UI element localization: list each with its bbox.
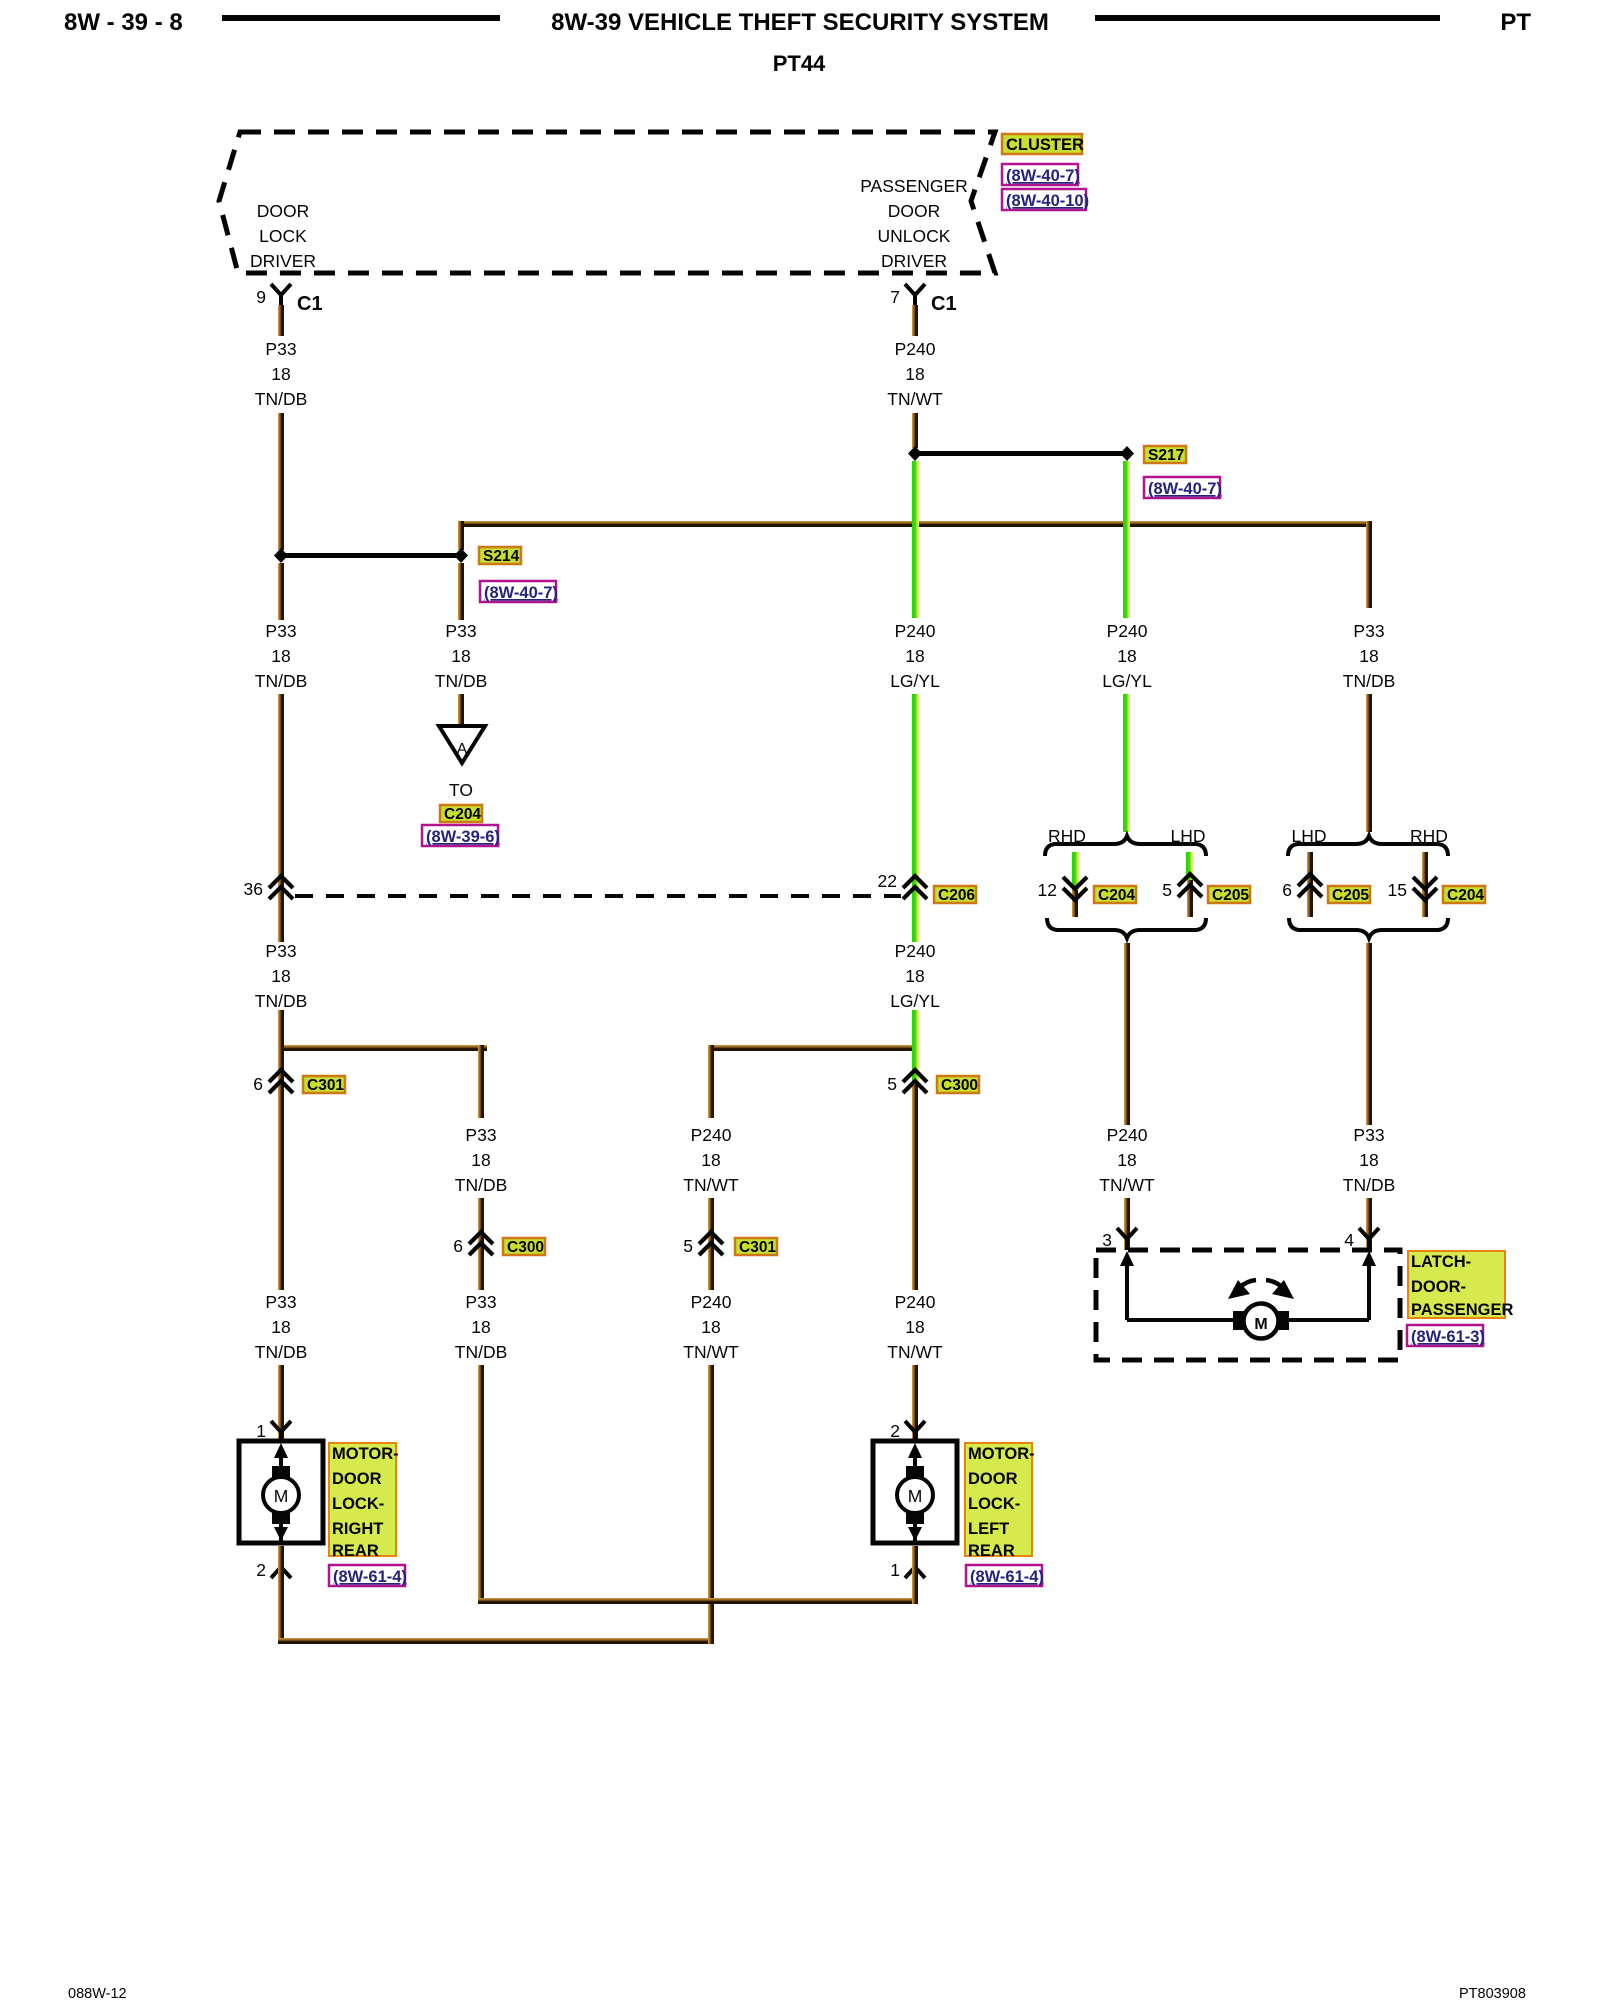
svg-text:18: 18 (271, 364, 290, 384)
cluster name label (1002, 134, 1084, 154)
svg-text:P240: P240 (1107, 1125, 1148, 1145)
svg-text:P33: P33 (445, 621, 476, 641)
green wire into C300 x915 (912, 1085, 918, 1290)
svg-text:18: 18 (451, 646, 470, 666)
svg-text:(8W-61-3): (8W-61-3) (1411, 1328, 1485, 1346)
latch pin 4 connector (1344, 1228, 1379, 1250)
svg-text:TN/DB: TN/DB (255, 671, 308, 691)
svg-text:C204: C204 (1098, 887, 1135, 904)
svg-text:LOCK-: LOCK- (968, 1495, 1020, 1513)
latch internal lead right with arrow (1362, 1251, 1376, 1320)
wire x481 down to y1601 (478, 1365, 484, 1604)
svg-text:TN/DB: TN/DB (435, 671, 488, 691)
svg-text:7: 7 (890, 287, 900, 307)
connector C300 label x915 (937, 1076, 979, 1094)
latch dashed box (1096, 1250, 1400, 1360)
ground symbol A (439, 726, 485, 763)
svg-text:P33: P33 (265, 1292, 296, 1312)
svg-text:18: 18 (1117, 646, 1136, 666)
svg-text:TN/DB: TN/DB (255, 991, 308, 1011)
motor left rear name label (965, 1443, 1035, 1560)
svg-text:C206: C206 (938, 887, 975, 904)
svg-text:P33: P33 (265, 339, 296, 359)
wire from motor left rear pin1 down to y1601 (912, 1546, 918, 1604)
brown rail wire P33 horizontal (458, 521, 1372, 527)
svg-text:C300: C300 (507, 1239, 544, 1256)
svg-text:LATCH-: LATCH- (1411, 1253, 1471, 1271)
svg-text:DOOR-: DOOR- (1411, 1278, 1466, 1296)
splice S217 label (1144, 446, 1186, 464)
connector C204 label left group (1094, 886, 1136, 904)
svg-text:18: 18 (905, 966, 924, 986)
bottom wire y1641 (278, 1638, 714, 1644)
header right rule (1095, 15, 1440, 21)
green wire LG/YL below S217 col x915 (912, 461, 919, 618)
svg-text:TN/WT: TN/WT (683, 1175, 739, 1195)
svg-text:P240: P240 (1107, 621, 1148, 641)
svg-text:1: 1 (890, 1560, 900, 1580)
svg-text:P33: P33 (1353, 1125, 1384, 1145)
svg-text:MOTOR-: MOTOR- (332, 1445, 399, 1463)
svg-text:PASSENGER: PASSENGER (860, 176, 968, 196)
splice S214 label (479, 547, 521, 565)
connector C301 label x711 (735, 1238, 777, 1256)
green wire LG/YL long run to C206 x915 (912, 694, 919, 942)
svg-text:P33: P33 (465, 1292, 496, 1312)
RHD branch stub x1425 (1422, 852, 1428, 917)
wire P240 down to splice S217 (912, 413, 918, 448)
svg-text:2: 2 (256, 1560, 266, 1580)
wire branch horizontal y1048 right (708, 1045, 918, 1051)
svg-text:C301: C301 (739, 1239, 776, 1256)
svg-text:P33: P33 (265, 621, 296, 641)
svg-text:18: 18 (471, 1150, 490, 1170)
svg-text:6: 6 (453, 1236, 463, 1256)
svg-text:18: 18 (271, 966, 290, 986)
svg-text:2: 2 (890, 1421, 900, 1441)
motor door lock left rear box (873, 1441, 957, 1543)
cluster ref link 8W-40-10 (1002, 189, 1089, 210)
svg-text:C1: C1 (931, 293, 957, 315)
svg-text:TN/DB: TN/DB (1343, 1175, 1396, 1195)
splice S214 ref link 8W-40-7 (480, 581, 558, 602)
svg-text:18: 18 (1359, 646, 1378, 666)
svg-text:CLUSTER: CLUSTER (1006, 136, 1084, 154)
ground connector label C204 (440, 805, 482, 823)
connector C1 pin 7 (890, 284, 956, 315)
LHD branch stub x1310 (1307, 852, 1313, 917)
svg-text:(8W-40-7): (8W-40-7) (1148, 480, 1222, 498)
cluster dashed outline (219, 132, 995, 273)
wire P33 down to LHD/RHD brace x1369 (1366, 694, 1372, 832)
connector C205 label right group (1328, 886, 1370, 904)
svg-text:DOOR: DOOR (257, 201, 310, 221)
svg-text:6: 6 (253, 1074, 263, 1094)
svg-text:18: 18 (905, 364, 924, 384)
motor right rear pin 1 connector (256, 1421, 291, 1441)
svg-text:4: 4 (1344, 1230, 1354, 1250)
splice S217 node diamond right (1120, 446, 1134, 461)
svg-text:5: 5 (887, 1074, 897, 1094)
svg-text:1: 1 (256, 1421, 266, 1441)
latch pin 3 connector (1102, 1228, 1137, 1250)
connector C1 pin 9 (256, 284, 322, 315)
svg-text:DRIVER: DRIVER (881, 251, 947, 271)
connector C205 pin 5 chevrons up (1162, 874, 1202, 900)
svg-text:18: 18 (471, 1317, 490, 1337)
connector C204 pin 12 chevrons down (1038, 877, 1087, 900)
header left rule (222, 15, 500, 21)
svg-text:C205: C205 (1332, 887, 1369, 904)
connector C206 dashed interface line (295, 894, 901, 898)
svg-text:C1: C1 (297, 293, 323, 315)
green wire LG/YL down to RHD/LHD brace x1127 (1123, 694, 1130, 832)
svg-text:088W-12: 088W-12 (68, 1986, 127, 2000)
svg-text:DOOR: DOOR (888, 201, 941, 221)
connector C300 pin 5 chevrons up (887, 1070, 927, 1094)
wire x711 down to y1641 (708, 1365, 714, 1644)
svg-text:18: 18 (701, 1150, 720, 1170)
svg-text:LG/YL: LG/YL (890, 991, 940, 1011)
wire from motor right rear pin2 down (278, 1546, 284, 1644)
svg-text:18: 18 (271, 1317, 290, 1337)
svg-text:M: M (908, 1486, 923, 1506)
motor left rear pin 1 connector (890, 1546, 925, 1580)
connector C301 pin 6 chevrons up (253, 1070, 293, 1094)
svg-text:DRIVER: DRIVER (250, 251, 316, 271)
latch motor rotation arrows (1228, 1280, 1294, 1299)
svg-text:6: 6 (1282, 880, 1292, 900)
connector C205 pin 6 chevrons up (1282, 874, 1322, 900)
bottom wire y1601 (478, 1598, 918, 1604)
wire x711 to C301 (708, 1198, 714, 1290)
motor right rear pin 2 connector (256, 1546, 291, 1580)
svg-text:(8W-61-4): (8W-61-4) (970, 1568, 1044, 1586)
wire x915 to motor pin 2 (912, 1365, 918, 1441)
splice S214 node diamond right (454, 548, 468, 563)
svg-text:5: 5 (683, 1236, 693, 1256)
wire stub to latch pin 4 (1366, 1198, 1372, 1250)
splice S217 node diamond left (908, 446, 922, 461)
svg-text:DOOR: DOOR (332, 1470, 382, 1488)
svg-text:TN/WT: TN/WT (683, 1342, 739, 1362)
splice S214 node diamond left (274, 548, 288, 563)
svg-text:18: 18 (905, 1317, 924, 1337)
svg-text:18: 18 (1359, 1150, 1378, 1170)
wire P240 from C1 pin 7 (912, 305, 918, 336)
connector C301 label x281 (303, 1076, 345, 1094)
svg-text:TO: TO (449, 780, 473, 800)
motor left rear ref link 8W-61-4 (966, 1565, 1044, 1586)
brace lower right group (1289, 918, 1448, 938)
svg-text:P240: P240 (691, 1125, 732, 1145)
motor right rear name label (329, 1443, 399, 1560)
svg-text:RIGHT: RIGHT (332, 1520, 383, 1538)
svg-text:LOCK: LOCK (259, 226, 307, 246)
LHD branch green stub x1190 (1187, 880, 1193, 917)
cluster ref link 8W-40-7 (1002, 164, 1080, 185)
svg-text:TN/DB: TN/DB (1343, 671, 1396, 691)
wire P33 below S214 left column (278, 563, 284, 620)
svg-text:LEFT: LEFT (968, 1520, 1009, 1538)
connector C300 label x481 (503, 1238, 545, 1256)
splice S217 ref link 8W-40-7 (1144, 477, 1222, 498)
svg-text:REAR: REAR (332, 1542, 379, 1560)
connector C204 pin 15 chevrons down (1388, 877, 1437, 900)
wire branch horizontal y1048 left (278, 1045, 487, 1051)
svg-text:(8W-40-7): (8W-40-7) (1006, 167, 1080, 185)
brace upper left group (1045, 836, 1206, 856)
latch internal lead left with arrow (1120, 1251, 1134, 1320)
svg-text:(8W-40-10): (8W-40-10) (1006, 192, 1089, 210)
svg-text:P240: P240 (895, 621, 936, 641)
svg-text:P240: P240 (895, 339, 936, 359)
svg-text:12: 12 (1038, 880, 1057, 900)
connector C205 label left group (1208, 886, 1250, 904)
svg-text:C204: C204 (444, 806, 481, 823)
svg-text:3: 3 (1102, 1230, 1112, 1250)
connector C206 pin 22 chevrons (878, 871, 927, 899)
svg-text:C205: C205 (1212, 887, 1249, 904)
motor left rear pin 2 connector (890, 1421, 925, 1441)
svg-text:(8W-39-6): (8W-39-6) (426, 828, 500, 846)
RHD branch green stub x1075 (1072, 890, 1078, 917)
svg-text:P240: P240 (691, 1292, 732, 1312)
svg-text:P240: P240 (895, 1292, 936, 1312)
latch motor M (1233, 1304, 1289, 1339)
svg-text:TN/DB: TN/DB (455, 1342, 508, 1362)
wire P240 below brace x1127 (1124, 943, 1130, 1125)
svg-text:C204: C204 (1447, 887, 1484, 904)
connector C204 label right group (1443, 886, 1485, 904)
svg-text:S217: S217 (1148, 447, 1184, 464)
branch wire down x711 (708, 1045, 714, 1118)
branch wire down x481 (478, 1045, 484, 1118)
svg-text:S214: S214 (483, 548, 520, 565)
splice S217 line (915, 451, 1127, 456)
svg-text:36: 36 (244, 879, 263, 899)
latch ref link 8W-61-3 (1407, 1325, 1485, 1346)
svg-text:P33: P33 (265, 941, 296, 961)
svg-text:8W - 39 - 8: 8W - 39 - 8 (64, 9, 183, 36)
svg-text:18: 18 (1117, 1150, 1136, 1170)
svg-text:22: 22 (878, 871, 897, 891)
wire P33 below S214 ground branch (458, 563, 464, 620)
svg-text:LG/YL: LG/YL (890, 671, 940, 691)
latch name label (1408, 1251, 1513, 1319)
svg-text:5: 5 (1162, 880, 1172, 900)
wire P33 from C1 pin 9 (278, 305, 284, 336)
connector C301 pin 5 chevrons up (683, 1232, 723, 1256)
svg-text:PT: PT (1500, 9, 1531, 36)
ground ref link 8W-39-6 (422, 825, 500, 846)
wire P33 down to splice S214 (278, 413, 284, 550)
svg-text:(8W-40-7): (8W-40-7) (484, 584, 558, 602)
green wire LG/YL below S217 col x1127 (1123, 461, 1130, 618)
svg-text:DOOR: DOOR (968, 1470, 1018, 1488)
svg-text:18: 18 (701, 1317, 720, 1337)
svg-text:MOTOR-: MOTOR- (968, 1445, 1035, 1463)
svg-text:TN/WT: TN/WT (887, 389, 943, 409)
wire stub to latch pin 3 (1124, 1198, 1130, 1250)
connector C206 pin 36 chevrons (244, 876, 293, 899)
wire P33 col1 long run to C206 (278, 694, 284, 942)
latch internal horizontal wire (1127, 1318, 1369, 1322)
svg-text:15: 15 (1388, 880, 1407, 900)
svg-text:TN/WT: TN/WT (887, 1342, 943, 1362)
splice S214 line (281, 553, 461, 558)
motor right rear ref link 8W-61-4 (329, 1565, 407, 1586)
svg-text:P33: P33 (1353, 621, 1384, 641)
svg-text:M: M (1254, 1316, 1267, 1333)
svg-text:(8W-61-4): (8W-61-4) (333, 1568, 407, 1586)
wire P33 below brace x1369 (1366, 943, 1372, 1125)
svg-text:M: M (274, 1486, 289, 1506)
svg-text:TN/DB: TN/DB (255, 1342, 308, 1362)
svg-text:PT803908: PT803908 (1459, 1986, 1526, 2000)
wire x481 to C300 (478, 1198, 484, 1290)
wire x281 to motor pin 1 (278, 1365, 284, 1441)
svg-text:9: 9 (256, 287, 266, 307)
svg-text:P33: P33 (465, 1125, 496, 1145)
svg-text:LOCK-: LOCK- (332, 1495, 384, 1513)
svg-text:P240: P240 (895, 941, 936, 961)
svg-text:C300: C300 (941, 1077, 978, 1094)
svg-text:8W-39 VEHICLE THEFT SECURITY S: 8W-39 VEHICLE THEFT SECURITY SYSTEM (551, 9, 1049, 36)
svg-text:UNLOCK: UNLOCK (878, 226, 951, 246)
svg-text:18: 18 (271, 646, 290, 666)
svg-text:TN/WT: TN/WT (1099, 1175, 1155, 1195)
rail left corner down to S214 (458, 521, 464, 550)
wire col1 through branch to C301 (278, 1010, 284, 1290)
motor door lock right rear box (239, 1441, 323, 1543)
svg-text:LG/YL: LG/YL (1102, 671, 1152, 691)
svg-text:TN/DB: TN/DB (255, 389, 308, 409)
svg-text:TN/DB: TN/DB (455, 1175, 508, 1195)
rail right corner down (1366, 521, 1372, 608)
svg-text:18: 18 (905, 646, 924, 666)
svg-text:PT44: PT44 (773, 51, 826, 76)
brace upper right group (1288, 836, 1448, 856)
connector C300 pin 6 chevrons up (453, 1232, 493, 1256)
svg-text:REAR: REAR (968, 1542, 1015, 1560)
connector C206 label (934, 886, 976, 904)
svg-text:C301: C301 (307, 1077, 344, 1094)
svg-text:PASSENGER: PASSENGER (1411, 1301, 1513, 1319)
svg-text:A: A (457, 741, 468, 758)
brace lower left group (1047, 918, 1206, 938)
wire stub to ground (458, 694, 464, 726)
